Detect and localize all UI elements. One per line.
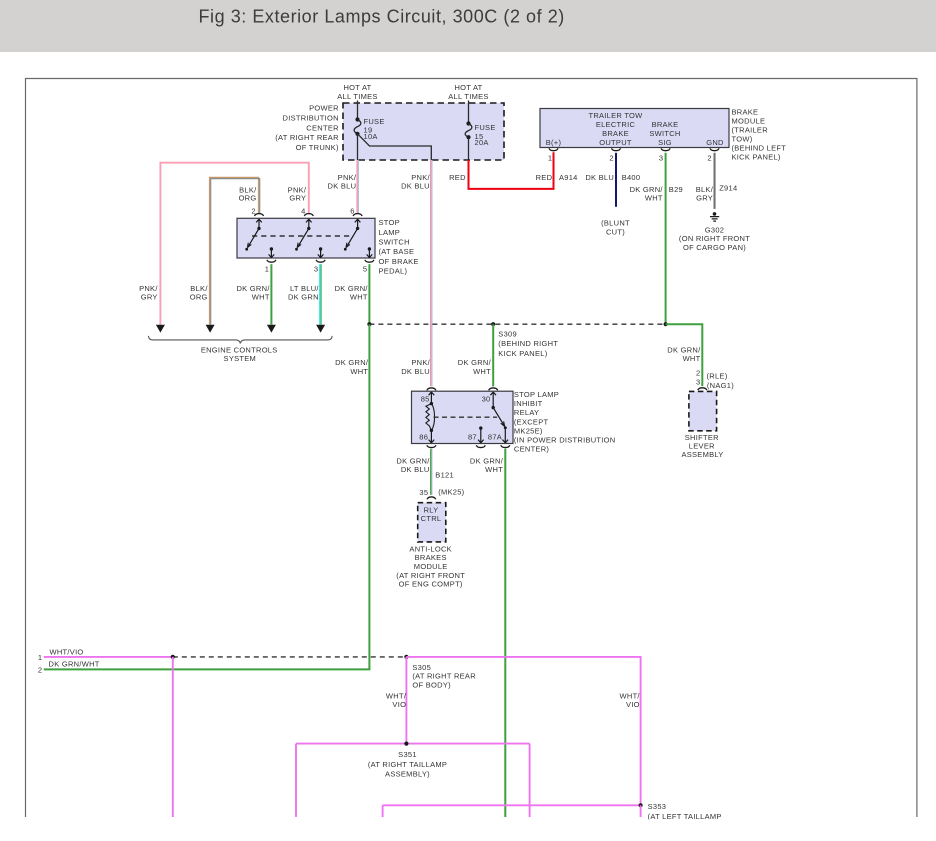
wire S309 splice dashed line [369,323,665,325]
ABS RLY CTRL box [418,503,446,542]
switch pin 3 connector (bottom) [316,260,325,262]
svg-text:WHT: WHT [350,367,368,376]
brake module pin gnd connector [710,148,719,150]
svg-text:RED: RED [536,173,553,182]
svg-text:ASSEMBLY): ASSEMBLY) [385,770,430,779]
svg-text:DK GRN: DK GRN [288,293,319,302]
arrow to engine controls (LT BLU/DK GRN) [316,325,325,333]
svg-text:S305: S305 [412,663,431,672]
stop lamp inhibit relay box [412,391,514,443]
svg-text:SWITCH: SWITCH [649,129,680,138]
wire DK GRN/WHT (switch pin 5 down to splice line) [335,264,370,324]
svg-text:STOP LAMP: STOP LAMP [514,390,559,399]
svg-text:6: 6 [350,207,354,216]
power distribution center box [343,103,504,160]
svg-text:CUT): CUT) [606,228,625,237]
svg-text:OUTPUT: OUTPUT [599,138,632,147]
svg-text:ELECTRIC: ELECTRIC [596,120,636,129]
svg-text:(IN POWER DISTRIBUTION: (IN POWER DISTRIBUTION [514,436,616,445]
node S309 [491,322,495,326]
wire WHT/VIO (left frame to splice) [44,656,173,658]
brake module pin 2 connector [612,148,621,150]
svg-text:TRAILER TOW: TRAILER TOW [588,111,643,120]
svg-text:DK BLU: DK BLU [401,465,430,474]
node junction left [367,322,371,326]
wire fuse 15 output (inside PDC) [468,137,470,160]
svg-text:FUSE: FUSE [475,123,496,132]
header bar [0,0,936,52]
svg-text:(BLUNT: (BLUNT [601,219,630,228]
relay pin 30 connector [489,388,498,390]
relay switch (pin 30 to 87A) [490,392,508,443]
switch bottom contact pin 3 [318,247,324,257]
wire WHT/VIO (S353 left leg down) [382,805,384,817]
fuse F15 20A [465,121,496,146]
svg-text:CENTER): CENTER) [514,445,550,454]
svg-text:BRAKE: BRAKE [732,108,759,117]
switch element 2 (pins 4-3) [295,219,312,250]
label S305 [412,663,476,690]
relay linkage dashed line [434,416,498,418]
svg-text:OF ENG COMPT): OF ENG COMPT) [399,580,463,589]
svg-text:(AT RIGHT TAILLAMP: (AT RIGHT TAILLAMP [368,760,447,769]
stop lamp inhibit relay label [514,390,616,454]
svg-text:S351: S351 [398,750,417,759]
svg-text:(RLE): (RLE) [707,371,728,380]
svg-text:GND: GND [706,138,724,147]
svg-text:WHT: WHT [645,193,663,202]
relay pin 86 connector (bottom) [427,445,436,447]
svg-text:WHT/VIO: WHT/VIO [50,648,84,657]
svg-text:PNK/: PNK/ [411,358,430,367]
wire PNK/DK BLU (fuse 19 to stop lamp switch pin 6) [328,160,359,214]
relay contact pin 87 (unused) [478,426,484,442]
svg-text:ANTI-LOCK: ANTI-LOCK [409,544,452,553]
wire WHT/VIO (S353 horizontal) [383,804,641,806]
svg-text:WHT: WHT [683,354,701,363]
wire PNK/DK BLU (fuse 19 branch to relay pin 85) [401,160,432,386]
svg-text:POWER: POWER [309,104,339,113]
svg-text:BRAKE: BRAKE [602,129,629,138]
svg-text:85: 85 [421,395,430,404]
wire BLK/ORG (switch pin 2 to engine controls) [190,177,260,324]
node junction left taillamp [171,655,175,659]
svg-text:B29: B29 [669,185,683,194]
svg-text:CTRL: CTRL [421,514,442,523]
wire hot feed into fuse 19 [357,101,359,120]
switch pin 1 connector (bottom) [267,260,276,262]
svg-text:DISTRIBUTION: DISTRIBUTION [283,113,339,122]
svg-text:PEDAL): PEDAL) [379,267,408,276]
brake module pin 1 connector [549,148,558,150]
wire BLK/GRY (gnd to G302) [696,153,738,209]
svg-text:B(+): B(+) [546,138,562,147]
wire WHT/VIO (S351 horizontal) [296,743,530,745]
brace engine controls system [149,336,333,344]
svg-text:OF TRUNK): OF TRUNK) [296,143,339,152]
wire DK GRN/WHT (switch pin 1 to engine controls) [236,264,271,324]
svg-text:S309: S309 [498,330,517,339]
svg-text:DK BLU: DK BLU [328,182,357,191]
wire fuse 19 branch to second output [358,134,432,160]
svg-text:(AT BASE: (AT BASE [379,247,415,256]
svg-text:GRY: GRY [141,293,158,302]
svg-text:1: 1 [265,265,269,274]
wire splice dashed line (to S305) [173,656,407,658]
switch element 1 (pins 2-1) [245,219,261,250]
svg-text:GRY: GRY [289,194,306,203]
svg-text:BRAKE: BRAKE [652,120,679,129]
svg-text:5: 5 [363,265,367,274]
label RLY CTRL [421,506,442,524]
shifter lever assembly label [681,433,723,459]
svg-text:RLY: RLY [424,506,439,515]
svg-text:1: 1 [548,154,552,163]
svg-text:2: 2 [251,207,255,216]
svg-text:(NAG1): (NAG1) [707,381,734,390]
switch pin 4 connector [304,214,313,216]
svg-text:3: 3 [696,378,700,387]
node S353 [639,803,643,807]
svg-text:DK BLU: DK BLU [401,182,430,191]
wire DK GRN/WHT (S309 to relay pin 30) [458,324,493,386]
svg-text:2: 2 [696,369,700,378]
wire DK GRN/WHT (splice down and to left frame pin 2) [44,324,370,669]
node S305 [404,655,408,659]
wire PNK/GRY (switch pin 4 to engine controls) [139,163,309,325]
svg-text:SYSTEM: SYSTEM [224,354,257,363]
arrow to engine controls (DK GRN/WHT) [267,325,276,333]
svg-text:2: 2 [609,154,613,163]
svg-text:87A: 87A [488,433,502,442]
switch element 3 (pins 6-5) [344,219,361,250]
switch pin 2 connector [255,214,264,216]
brake module pin 3 connector [661,148,670,150]
svg-text:DK GRN/WHT: DK GRN/WHT [49,660,100,669]
wire DK BLU (electric brake output, blunt cut) [585,153,640,237]
svg-text:10A: 10A [364,132,378,141]
svg-text:DK GRN/: DK GRN/ [335,358,369,367]
svg-text:DK GRN/: DK GRN/ [396,456,430,465]
switch bottom contact pin 1 [269,247,275,257]
brake module (trailer tow) box [540,109,729,148]
svg-text:MK25E): MK25E) [514,426,543,435]
label WHT/VIO (right branch) [620,692,641,710]
fuse F19 10A [354,117,385,141]
node HOT AT ALL TIMES (fuse 15) [448,83,488,101]
svg-text:ASSEMBLY: ASSEMBLY [681,450,723,459]
stop lamp switch box [237,218,375,258]
svg-text:(EXCEPT: (EXCEPT [514,417,549,426]
wire fuse 19 output (inside PDC) [357,134,359,160]
svg-text:VIO: VIO [392,700,406,709]
wire WHT/VIO (S305 right to left taillamp branch) [406,657,640,805]
svg-text:20A: 20A [475,138,489,147]
svg-text:WHT: WHT [473,367,491,376]
svg-text:(BEHIND RIGHT: (BEHIND RIGHT [498,339,558,348]
svg-text:INHIBIT: INHIBIT [514,399,543,408]
svg-text:CENTER: CENTER [306,123,339,132]
svg-text:2: 2 [707,154,711,163]
anti-lock brakes module label [396,544,465,588]
svg-text:RELAY: RELAY [514,408,539,417]
wire RED (fuse 15 to brake module pin 1) [449,152,578,189]
label S353 [648,802,722,821]
switch linkage dashed line [252,235,354,237]
svg-text:Z914: Z914 [719,184,737,193]
svg-text:(ON RIGHT FRONT: (ON RIGHT FRONT [679,234,750,243]
switch bottom contact pin 5 [367,247,373,257]
node S351 [404,742,408,746]
svg-text:4: 4 [301,207,305,216]
svg-text:S353: S353 [648,802,667,811]
node junction right [664,322,668,326]
svg-text:GRY: GRY [696,193,713,202]
svg-text:2: 2 [38,665,42,674]
svg-text:3: 3 [659,154,663,163]
switch pin 6 connector [353,214,362,216]
svg-text:86: 86 [419,433,428,442]
svg-text:RED: RED [449,173,466,182]
arrow to engine controls (BLK/ORG) [206,325,215,333]
ABS pin 35 connector [427,497,436,499]
power distribution center label [275,104,339,152]
svg-text:BRAKES: BRAKES [415,553,447,562]
bottom clip [0,820,936,841]
svg-text:DK BLU: DK BLU [401,367,430,376]
svg-text:KICK PANEL): KICK PANEL) [498,349,547,358]
shifter pin connector [698,388,707,390]
label engine controls system [201,345,278,363]
svg-text:STOP: STOP [379,218,400,227]
brake module label [732,108,787,162]
node HOT AT ALL TIMES (fuse 19) [337,83,377,101]
svg-text:MODULE: MODULE [414,562,448,571]
svg-text:MODULE: MODULE [732,117,766,126]
wire WHT/VIO (S351 left leg down) [295,744,297,817]
stop lamp switch label [379,218,419,276]
shifter lever assembly box [689,391,717,430]
svg-text:ALL TIMES: ALL TIMES [337,92,377,101]
svg-text:Fig 3: Exterior Lamps Circuit,: Fig 3: Exterior Lamps Circuit, 300C (2 o… [199,7,565,27]
wire WHT/VIO (S353 down) [640,805,642,817]
label S309 [498,330,558,358]
ground G302 [679,212,750,252]
svg-text:ORG: ORG [190,293,208,302]
wire WHT/VIO (left splice down) [172,657,174,817]
svg-text:ORG: ORG [239,194,257,203]
relay pin 87A connector (bottom) [501,445,510,447]
wire DK GRN/DK BLU (relay pin 86 to ABS module) [396,449,464,497]
svg-text:WHT: WHT [252,293,270,302]
wire WHT/VIO (S305 down to S351) [386,657,407,744]
svg-text:OF BODY): OF BODY) [412,681,451,690]
arrow to engine controls (PNK/GRY) [156,325,165,333]
relay pin 87 connector (bottom) [476,445,485,447]
wire DK GRN/WHT (junction to shifter lever assembly) [666,324,735,390]
wire DK GRN/WHT (relay pin 87A down to taillamp area) [470,449,505,817]
svg-text:LAMP: LAMP [379,228,401,237]
svg-text:B400: B400 [622,173,641,182]
svg-text:87: 87 [468,433,477,442]
svg-text:SIG: SIG [658,138,672,147]
wire WHT/VIO (S351 right leg down) [529,744,531,817]
svg-text:(BEHIND LEFT: (BEHIND LEFT [732,144,787,153]
wire hot feed into fuse 15 [468,101,470,124]
svg-text:B121: B121 [435,471,454,480]
svg-text:WHT: WHT [485,465,503,474]
svg-text:(AT RIGHT REAR: (AT RIGHT REAR [412,672,476,681]
switch pin 5 connector (bottom) [365,260,374,262]
relay pin 85 connector [427,388,436,390]
label S351 [368,750,447,779]
svg-text:OF BRAKE: OF BRAKE [379,257,419,266]
svg-text:DK GRN/: DK GRN/ [458,358,492,367]
svg-text:KICK PANEL): KICK PANEL) [732,153,781,162]
svg-text:A914: A914 [559,173,578,182]
svg-text:SWITCH: SWITCH [379,238,410,247]
svg-text:OF CARGO PAN): OF CARGO PAN) [683,243,746,252]
svg-text:(AT RIGHT REAR: (AT RIGHT REAR [275,133,339,142]
svg-text:TOW): TOW) [732,135,753,144]
svg-text:(MK25): (MK25) [438,487,464,496]
wire DK GRN/WHT (brake switch sig to S309) [630,153,683,324]
relay coil (pin 85 to 86) [426,392,435,443]
svg-text:(AT RIGHT FRONT: (AT RIGHT FRONT [396,571,465,580]
svg-text:3: 3 [314,265,318,274]
svg-text:DK GRN/: DK GRN/ [470,456,504,465]
wire LT BLU/DK GRN (switch pin 3 to engine controls) [288,264,321,324]
svg-text:ALL TIMES: ALL TIMES [448,92,488,101]
svg-text:G302: G302 [705,225,724,234]
svg-text:35: 35 [419,488,428,497]
svg-text:(TRAILER: (TRAILER [732,126,769,135]
brake module pin names [546,111,724,147]
svg-text:30: 30 [482,395,491,404]
svg-text:VIO: VIO [626,700,640,709]
svg-text:1: 1 [38,653,42,662]
svg-text:WHT: WHT [350,293,368,302]
svg-text:DK BLU: DK BLU [585,173,614,182]
